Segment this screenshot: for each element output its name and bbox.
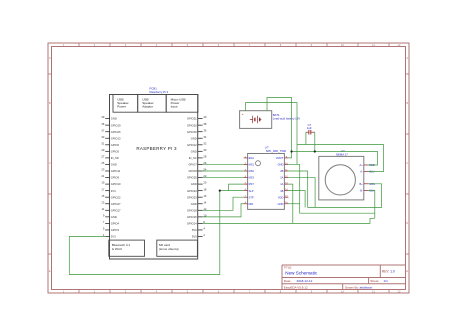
svg-text:Adaptor: Adaptor — [142, 105, 153, 109]
PCB1 right pin 40 GPIO21 — [187, 115, 207, 121]
svg-text:GPIO4: GPIO4 — [111, 222, 120, 226]
svg-text:3V3: 3V3 — [111, 189, 116, 193]
PCB1 right pin 16 GPIO23 — [187, 194, 207, 200]
wire 3V3 loop from PCB1 to RST/SLP — [69, 191, 220, 275]
svg-text:15: 15 — [101, 194, 104, 198]
wire battery right to VMOT — [267, 98, 292, 158]
wire 2A drop — [288, 178, 315, 208]
svg-text:SLP: SLP — [249, 189, 254, 193]
svg-text:MS3: MS3 — [249, 176, 255, 180]
svg-text:28: 28 — [203, 155, 206, 159]
U1 right pin 14 1B — [280, 189, 288, 193]
svg-text:14: 14 — [203, 200, 206, 204]
wire 1B drop — [288, 191, 305, 208]
svg-text:29: 29 — [101, 148, 104, 152]
motor pin 3 B+ GRN — [360, 182, 376, 186]
svg-text:5: 5 — [103, 227, 105, 231]
svg-text:GND: GND — [278, 202, 284, 206]
PCB1 left pin 15 GPIO22 — [101, 194, 121, 200]
svg-text:7: 7 — [103, 220, 105, 224]
U1 left pin 5 RST — [244, 182, 255, 186]
svg-text:A+: A+ — [360, 163, 364, 167]
PCB1 left pin 33 GPIO13 — [101, 135, 121, 141]
svg-text:MS2: MS2 — [249, 169, 255, 173]
svg-text:37: 37 — [101, 128, 104, 132]
svg-text:3V3: 3V3 — [111, 235, 116, 239]
junction node 1 — [219, 190, 221, 192]
svg-text:5V0: 5V0 — [192, 228, 197, 232]
wire GPIO7 to MS1 — [203, 163, 244, 165]
wire SLP to node — [220, 190, 244, 192]
svg-text:D: D — [49, 221, 51, 225]
U1 left pin 1 ENA — [244, 156, 255, 160]
capacitor C1 symbol — [306, 130, 315, 135]
svg-text:25: 25 — [101, 161, 104, 165]
svg-text:19: 19 — [101, 181, 104, 185]
sub-box Micro-USB Power Input — [166, 95, 198, 113]
PCB1 right pin 10 GPIO15 — [187, 213, 207, 219]
wire GPIO25 to MS3 — [203, 177, 244, 179]
svg-text:36: 36 — [203, 128, 206, 132]
svg-text:STP: STP — [249, 195, 254, 199]
svg-text:GPIO25: GPIO25 — [187, 176, 197, 180]
svg-text:GND: GND — [191, 182, 197, 186]
U1 left pin 8 DIR — [244, 202, 254, 206]
svg-text:(Linux ubuntu): (Linux ubuntu) — [159, 247, 179, 251]
wire GPIO14 long run — [203, 218, 375, 223]
op-amp U1 stepper driver body — [248, 154, 285, 210]
wire GPIO8 to MS2 — [203, 170, 244, 172]
svg-text:Raspberry Pi 3: Raspberry Pi 3 — [150, 90, 169, 94]
svg-text:REV: 1.0: REV: 1.0 — [382, 269, 395, 273]
wire 1A drop to long run — [288, 184, 292, 223]
junction node 2 — [290, 150, 292, 152]
motor pin 1 A+ RED — [360, 163, 375, 167]
svg-text:VMOT: VMOT — [276, 156, 284, 160]
svg-text:A-: A- — [360, 170, 363, 174]
sub-box USB Speaker Power — [113, 95, 138, 113]
frame tick marks left and right — [48, 74, 409, 254]
svg-text:EasyEDA V5.8.12: EasyEDA V5.8.12 — [284, 285, 308, 289]
svg-text:New Schematic: New Schematic — [285, 271, 318, 276]
PCB1 left pin 21 GPIO9 — [101, 174, 119, 180]
frame grid reference labels — [49, 43, 408, 294]
wire GND16 tie — [288, 203, 299, 205]
svg-text:GPIO11: GPIO11 — [111, 169, 121, 173]
wire cap right lead drop — [314, 132, 316, 151]
sub-box USB Speaker Adaptor — [138, 95, 167, 113]
svg-text:GPIO9: GPIO9 — [111, 176, 120, 180]
U1 pin-1 indicator circle — [256, 161, 261, 166]
wire VMOT rail to RED — [292, 152, 378, 166]
svg-text:D: D — [406, 221, 408, 225]
svg-text:31: 31 — [101, 141, 104, 145]
wire riser to BLK — [369, 190, 375, 218]
PCB1 left pin 35 GPIO19 — [101, 122, 121, 128]
svg-text:GPIO8: GPIO8 — [188, 169, 197, 173]
sheet frame inner border — [52, 47, 406, 290]
svg-text:23: 23 — [101, 168, 104, 172]
svg-text:+: + — [242, 112, 244, 116]
wire battery left to GND rail — [246, 103, 298, 165]
svg-text:39: 39 — [101, 115, 104, 119]
svg-text:4: 4 — [203, 227, 205, 231]
PCB1 right pin 12 GPIO18 — [187, 207, 207, 213]
svg-text:NEMA 17: NEMA 17 — [336, 152, 348, 156]
svg-text:GND: GND — [278, 163, 284, 167]
PCB1 left pin 25 GND — [101, 161, 116, 167]
svg-text:E: E — [406, 269, 408, 273]
PCB1 right pin 22 GPIO25 — [187, 174, 207, 180]
svg-text:30: 30 — [203, 148, 206, 152]
svg-text:B: B — [406, 101, 408, 105]
svg-text:Date:: Date: — [284, 279, 292, 283]
wire GND run under motor — [288, 164, 374, 213]
svg-text:GND: GND — [111, 163, 117, 167]
PCB1 right pin 4 5V0 — [192, 227, 205, 233]
svg-text:GPIO20: GPIO20 — [187, 123, 197, 127]
sub-box SD card Linux ubuntu — [157, 240, 198, 256]
svg-text:1B: 1B — [280, 189, 283, 193]
svg-text:11: 11 — [102, 207, 105, 211]
svg-text:GPIO13: GPIO13 — [111, 136, 121, 140]
U1 right pin 13 1A — [280, 182, 288, 186]
svg-text:MS1: MS1 — [249, 163, 255, 167]
svg-text:GND: GND — [191, 149, 197, 153]
wire GPIO15 to DIR — [203, 204, 244, 217]
svg-text:GPIO21: GPIO21 — [187, 117, 197, 121]
module PCB1 RASPBERRY PI 3 body — [110, 95, 198, 260]
svg-text:B+: B+ — [360, 182, 364, 186]
svg-text:RST: RST — [249, 182, 255, 186]
svg-text:GPIO14: GPIO14 — [187, 222, 197, 226]
U1 right pin 16 GND — [278, 202, 289, 206]
motor pin 4 B- BLK — [360, 189, 374, 193]
svg-text:21: 21 — [101, 174, 104, 178]
svg-text:ID_SD: ID_SD — [111, 156, 119, 160]
svg-text:GPIO18: GPIO18 — [187, 208, 197, 212]
motor pin 2 A- BLU — [360, 170, 374, 174]
svg-text:1A: 1A — [280, 182, 283, 186]
svg-text:GPIO12: GPIO12 — [187, 143, 197, 147]
svg-text:32: 32 — [203, 141, 206, 145]
svg-text:GPIO10: GPIO10 — [111, 182, 121, 186]
PCB1 left pin 7 GPIO4 — [103, 220, 120, 226]
PCB1 left pin 5 GPIO3 — [103, 227, 120, 233]
PCB1 right pin 30 GND — [191, 148, 207, 154]
motor U2 NEMA 17 body — [319, 156, 364, 200]
svg-text:GPIO24: GPIO24 — [187, 189, 197, 193]
svg-text:GPIO15: GPIO15 — [187, 215, 197, 219]
svg-text:RASPBERRY PI 3: RASPBERRY PI 3 — [136, 146, 177, 151]
svg-text:34: 34 — [203, 135, 206, 139]
svg-text:akidbtsun: akidbtsun — [360, 285, 373, 289]
PCB1 right pin 36 GPIO16 — [187, 128, 207, 134]
svg-text:GPIO5: GPIO5 — [111, 149, 120, 153]
PCB1 left pin 37 GPIO26 — [101, 128, 121, 134]
PCB1 right pin 14 GND — [191, 200, 207, 206]
svg-text:GPIO19: GPIO19 — [111, 123, 121, 127]
svg-text:Power: Power — [117, 105, 126, 109]
svg-text:35: 35 — [101, 122, 104, 126]
svg-text:18: 18 — [203, 187, 206, 191]
svg-text:C: C — [49, 161, 51, 165]
svg-text:GND: GND — [191, 136, 197, 140]
U1 right pin 11 2B — [280, 169, 288, 173]
svg-text:B: B — [49, 101, 51, 105]
svg-text:40: 40 — [203, 115, 206, 119]
svg-text:GPIO17: GPIO17 — [111, 208, 121, 212]
svg-text:33: 33 — [101, 135, 104, 139]
svg-text:GPIO27: GPIO27 — [111, 202, 121, 206]
U1 left pin 2 MS1 — [244, 163, 255, 167]
svg-text:GPIO26: GPIO26 — [111, 130, 121, 134]
U1 left pin 4 MS3 — [244, 176, 255, 180]
wire BLU to cap — [297, 145, 384, 172]
svg-text:16: 16 — [203, 194, 206, 198]
svg-text:GPIO23: GPIO23 — [187, 195, 197, 199]
U1 left pin 3 MS2 — [244, 169, 255, 173]
svg-text:SPK_MID_TWR: SPK_MID_TWR — [266, 149, 286, 153]
svg-text:2018-12-12: 2018-12-12 — [297, 279, 313, 283]
svg-text:C: C — [406, 161, 408, 165]
svg-text:9: 9 — [103, 213, 105, 217]
PCB1 right pin 26 GPIO7 — [188, 161, 206, 167]
PCB1 left pin 17 3V3 — [101, 187, 116, 193]
wire GPIO18 to STP — [203, 197, 244, 210]
svg-text:A: A — [49, 56, 51, 60]
U1 right pin 10 GND — [278, 163, 289, 167]
svg-text:Sheet:: Sheet: — [370, 279, 379, 283]
svg-text:27: 27 — [101, 155, 104, 159]
svg-text:13: 13 — [101, 200, 104, 204]
PCB1 left pin 31 GPIO6 — [101, 141, 119, 147]
svg-text:E: E — [49, 269, 51, 273]
PCB1 right pin 38 GPIO20 — [187, 122, 207, 128]
svg-text:GPIO6: GPIO6 — [111, 143, 120, 147]
svg-text:Lead-acid battery 12V: Lead-acid battery 12V — [273, 116, 300, 120]
PCB1 right pin 32 GPIO12 — [187, 141, 207, 147]
wire cap left lead drop — [305, 132, 307, 144]
svg-text:5V0: 5V0 — [192, 235, 197, 239]
svg-text:TITLE:: TITLE: — [284, 266, 292, 270]
PCB1 right pin 20 GND — [191, 181, 207, 187]
svg-text:A: A — [406, 56, 408, 60]
svg-text:VDD: VDD — [278, 195, 284, 199]
svg-text:1uF: 1uF — [307, 126, 312, 130]
svg-text:Input: Input — [171, 105, 178, 109]
svg-text:DIR: DIR — [249, 202, 254, 206]
svg-text:38: 38 — [203, 122, 206, 126]
U1 left pin 7 STP — [244, 195, 254, 199]
svg-text:GPIO22: GPIO22 — [111, 195, 121, 199]
svg-text:GPIO3: GPIO3 — [111, 228, 120, 232]
U1 right pin 9 VMOT — [276, 156, 289, 160]
motor rotor circle — [325, 165, 355, 195]
junction node 3 — [314, 150, 316, 152]
svg-text:1/1: 1/1 — [384, 279, 389, 283]
svg-text:2: 2 — [203, 233, 205, 237]
PCB1 left pin 27 ID_SD — [101, 155, 118, 161]
PCB1 right pin 28 ID_SC — [189, 155, 207, 161]
U1 left pin 6 SLP — [244, 189, 254, 193]
wire 2B around motor to GRN — [288, 171, 381, 207]
svg-text:ID_SC: ID_SC — [189, 156, 197, 160]
svg-text:B-: B- — [360, 189, 363, 193]
svg-text:GPIO16: GPIO16 — [187, 130, 197, 134]
PCB1 left pin 39 GND — [101, 115, 116, 121]
svg-text:GND: GND — [111, 117, 117, 121]
wire RST jog — [229, 184, 244, 191]
PCB1 right pin 34 GND — [191, 135, 207, 141]
svg-text:20: 20 — [203, 181, 206, 185]
svg-text:ENA: ENA — [249, 156, 255, 160]
svg-text:GND: GND — [191, 202, 197, 206]
PCB1 left pin 13 GPIO27 — [101, 200, 121, 206]
PCB1 left pin 9 GND — [103, 213, 117, 219]
U1 right pin 12 2A — [280, 176, 288, 180]
svg-text:GPIO7: GPIO7 — [188, 163, 197, 167]
PCB1 right pin 18 GPIO24 — [187, 187, 207, 193]
PCB1 right pin 24 GPIO8 — [188, 168, 206, 174]
svg-text:2A: 2A — [280, 176, 283, 180]
PCB1 left pin 19 GPIO10 — [101, 181, 121, 187]
PCB1 left pin 29 GPIO5 — [101, 148, 119, 154]
svg-text:GND: GND — [111, 215, 117, 219]
svg-text:2B: 2B — [280, 169, 283, 173]
PCB1 left pin 11 GPIO17 — [102, 207, 121, 213]
battery BAT1 symbol — [250, 116, 261, 123]
PCB1 left pin 1 3V3 — [103, 233, 116, 239]
sub-box Bluetooth 4.1 & Wi-Fi — [109, 240, 145, 256]
PCB1 right pin 2 5V0 — [192, 233, 205, 239]
svg-text:& Wi-Fi: & Wi-Fi — [112, 247, 122, 251]
frame tick marks top and bottom — [79, 43, 389, 293]
svg-text:17: 17 — [101, 187, 104, 191]
PCB1 left pin 23 GPIO11 — [101, 168, 120, 174]
U1 right pin 15 VDD — [278, 195, 288, 199]
battery BAT1 body — [240, 111, 272, 129]
title block — [282, 265, 406, 290]
sheet frame outer border — [48, 43, 409, 293]
PCB1 right pin 8 GPIO14 — [187, 220, 205, 226]
svg-text:Drawn By:: Drawn By: — [345, 285, 359, 289]
